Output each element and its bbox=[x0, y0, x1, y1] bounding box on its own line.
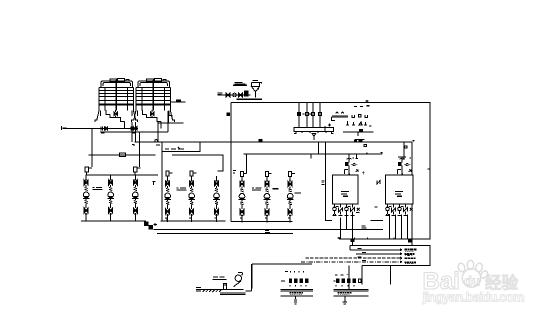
float valve tank bbox=[252, 81, 262, 98]
bottom-left inlet arrow bbox=[196, 288, 201, 292]
line 3 markers bbox=[351, 240, 412, 242]
base line hatches bbox=[203, 290, 222, 293]
instrument symbols row 1 bbox=[352, 115, 368, 118]
main top header pipe bbox=[231, 103, 430, 240]
drop valve squares bbox=[297, 113, 321, 116]
group A top header bbox=[89, 155, 156, 167]
pressure unit riser bbox=[348, 265, 350, 289]
softener bottle 1 bbox=[289, 279, 291, 283]
group A right elbow flange bbox=[133, 167, 140, 175]
line 1 label right bbox=[362, 226, 367, 228]
tower CT1 outlet valve bbox=[114, 112, 117, 117]
legend small labels on lines bbox=[358, 249, 367, 261]
group C supply header left elbow bbox=[247, 154, 311, 173]
cooling tower CT2 legs bbox=[132, 111, 175, 122]
group C left edge label bbox=[233, 171, 236, 173]
svg-text:du: du bbox=[464, 274, 480, 289]
group C branch flag fitting 3 bbox=[289, 172, 295, 177]
group C branch flag fitting 1 bbox=[240, 172, 246, 177]
tower water line 2 bbox=[100, 131, 168, 133]
chiller CH1 bottom extra marks bbox=[336, 207, 360, 213]
legend line L2 bbox=[356, 253, 402, 255]
group B label row dashes bbox=[165, 147, 184, 149]
chiller CH1 drop c bbox=[351, 215, 353, 246]
legend line L1 bbox=[350, 249, 402, 251]
group B frame top bbox=[162, 142, 200, 152]
label E right of group C bbox=[322, 181, 325, 184]
bottom-left unit pump bbox=[234, 273, 243, 288]
bottom-left footer bar bbox=[220, 293, 246, 294]
group C label 3# bbox=[252, 188, 262, 190]
chiller CH2 top drop from line A bbox=[404, 142, 407, 160]
baidu paw watermark bbox=[457, 260, 489, 287]
makeup riser horizontal bbox=[252, 264, 312, 289]
softener lower bar bbox=[280, 295, 313, 297]
group A header meter box bbox=[120, 153, 126, 157]
shelf filled box bbox=[360, 129, 363, 132]
softener ticks row bbox=[285, 271, 304, 273]
makeup valve 1 bbox=[226, 93, 230, 97]
label N between chillers bbox=[377, 181, 380, 185]
pump P2 column bbox=[107, 175, 114, 221]
softener bottle 4 bbox=[306, 279, 308, 283]
pressure unit label bbox=[338, 293, 352, 295]
chiller CH2 label bbox=[395, 192, 403, 197]
pressure unit ground symbol bbox=[343, 296, 348, 304]
softener base bar bbox=[280, 290, 313, 291]
chiller CH2 bottom extra marks bbox=[375, 207, 413, 211]
makeup strainer blob bbox=[245, 91, 249, 96]
line1 union fittings left bbox=[101, 126, 105, 133]
pressure unit squares bbox=[334, 274, 362, 286]
distributor drain funnel bbox=[312, 133, 316, 140]
group B frame left edge bbox=[161, 142, 163, 221]
bottom main line 2 bbox=[157, 233, 293, 235]
tower CT2 side pipe bbox=[158, 111, 184, 123]
line A start riser bbox=[132, 142, 135, 146]
distributor drop 4 bbox=[319, 103, 321, 128]
chiller collector line 3 bbox=[338, 237, 431, 239]
softener bottle 3 bbox=[300, 279, 302, 283]
cooling tower CT2 body bbox=[136, 80, 171, 111]
legend Chinese labels bbox=[405, 250, 417, 264]
cooling tower CT1 fan cap bbox=[101, 79, 133, 88]
line 2 label bbox=[265, 231, 270, 233]
standby pump label bbox=[272, 189, 301, 193]
chiller CH2 drop d bbox=[406, 215, 408, 240]
line A flange markers bbox=[259, 140, 367, 147]
makeup valve 2 bbox=[239, 93, 243, 97]
water distributor manifold bbox=[294, 128, 334, 134]
bypass bracket left bbox=[325, 126, 332, 132]
group A suction header bbox=[85, 174, 158, 176]
pump P4 column bbox=[164, 176, 171, 222]
cooling tower CT2 fan cap bbox=[138, 79, 170, 88]
pump P8 column bbox=[264, 176, 271, 222]
chiller CH2 bottom cluster bbox=[371, 204, 408, 220]
tank base bar bbox=[237, 99, 263, 100]
pump P5 column bbox=[188, 176, 195, 222]
pump P7 column bbox=[239, 176, 246, 222]
softener label bbox=[290, 293, 304, 295]
CT2 right leg drop bbox=[167, 111, 169, 132]
chiller CH1 inlet drop bbox=[326, 142, 332, 221]
bottom-left unit label bbox=[213, 277, 227, 280]
cooling tower CT1 body bbox=[99, 80, 134, 111]
makeup water pipe bbox=[218, 94, 251, 96]
instrument dashes top bbox=[354, 105, 370, 108]
makeup label left bbox=[218, 93, 223, 95]
overflow valve mark bbox=[177, 100, 181, 102]
cooling tower CT1 legs bbox=[95, 111, 138, 122]
tower water line label a] bbox=[62, 126, 67, 130]
chilled supply header (line B) bbox=[244, 152, 383, 154]
gauge hatch line bbox=[332, 112, 349, 121]
line1 union fittings right bbox=[131, 126, 135, 133]
softener bottle 2 bbox=[295, 279, 297, 283]
bottom main line 1 bbox=[154, 228, 383, 230]
tower riser left (to pump header) bbox=[91, 129, 93, 155]
chiller CH2 drop a bbox=[389, 214, 391, 239]
pump P3 column bbox=[132, 175, 139, 221]
group B label 2# bbox=[177, 188, 187, 190]
chiller CH2 drop e bbox=[411, 204, 413, 245]
chiller CH1 label bbox=[341, 192, 349, 197]
distributor drop 2 bbox=[306, 103, 308, 128]
chiller CH2 top cluster bbox=[398, 157, 412, 175]
distributor right bracket fitting bbox=[328, 124, 331, 127]
line A right drop bbox=[412, 141, 414, 175]
legend line L3 dashed bbox=[305, 257, 402, 259]
tower riser right (to pump header) bbox=[139, 132, 141, 155]
tower CT2 outlet valve bbox=[150, 112, 153, 117]
riser elbow bbox=[246, 264, 252, 291]
group C foot fittings bbox=[240, 218, 290, 221]
chiller CH2 bbox=[386, 175, 414, 204]
tower water supply line 1 bbox=[63, 128, 139, 130]
tower CT1 outlet trap pipe bbox=[106, 110, 125, 128]
group A discharge header bbox=[81, 220, 146, 222]
chiller CH1 top cluster bbox=[345, 154, 365, 175]
CT2 trap drop to line A bbox=[156, 122, 160, 146]
distributor drop 3 bbox=[312, 103, 314, 128]
top line tick bbox=[366, 100, 369, 103]
chiller CH2 drop b bbox=[395, 215, 397, 240]
chiller CH1 bottom cluster bbox=[333, 204, 355, 216]
flange marker on group C left edge bbox=[227, 113, 229, 115]
legend box bottom drops bbox=[362, 265, 391, 284]
distributor drop 1 bbox=[298, 103, 300, 128]
chiller CH1 bbox=[333, 175, 358, 204]
bottom-left unit tank bbox=[223, 284, 226, 290]
pressure unit lower bar bbox=[334, 295, 369, 297]
makeup water meter bbox=[233, 93, 237, 97]
softener inlet dash bbox=[281, 281, 306, 287]
group B discharge header bbox=[160, 220, 225, 222]
instrument symbols row 2 bbox=[346, 121, 372, 126]
union circle on line A bbox=[155, 140, 158, 143]
bottom-left unit base line bbox=[200, 288, 244, 290]
makeup water label underlined bbox=[233, 83, 247, 86]
condenser return header (line A) bbox=[135, 141, 412, 143]
legend line L4 dashdot bbox=[301, 261, 402, 263]
chiller CH2 drop c bbox=[401, 215, 403, 240]
pump P9 column bbox=[287, 176, 294, 222]
tower CT1 drain valve on line bbox=[104, 127, 107, 130]
group B supply header bbox=[172, 155, 223, 171]
chiller CH1 drop a bbox=[340, 218, 342, 240]
between-tower drops to line A bbox=[132, 122, 135, 142]
overflow stub right of CT2 bbox=[170, 101, 185, 103]
svg-text:jingyan.baidu.com: jingyan.baidu.com bbox=[422, 290, 525, 305]
group A label 1# bbox=[93, 188, 103, 190]
line B tick bbox=[319, 142, 368, 155]
group A left elbow flange bbox=[85, 167, 92, 175]
group B branch flag fitting 1 bbox=[166, 171, 172, 176]
group B branch flag fitting 2 bbox=[190, 171, 196, 176]
chiller CH1 drop b bbox=[346, 214, 348, 229]
text dashes under shelf bbox=[355, 139, 365, 141]
pump P6 column bbox=[213, 176, 220, 222]
group B foot fittings bbox=[165, 218, 217, 221]
label B right of group A bbox=[153, 182, 156, 186]
group C frame left edge bbox=[230, 103, 232, 222]
pressure unit base bar bbox=[334, 290, 369, 291]
pump P1 column bbox=[83, 175, 90, 221]
group C branch flag fitting 2 bbox=[265, 172, 271, 177]
tower CT2 outlet trap pipe bbox=[143, 110, 162, 128]
softener drain symbol bbox=[294, 296, 297, 304]
group C discharge header bbox=[231, 220, 293, 222]
tower CT2 drain valve on line bbox=[133, 127, 136, 130]
right riser tick bbox=[427, 168, 430, 170]
legend box bbox=[350, 246, 430, 266]
instrument shelf line bbox=[343, 132, 374, 136]
group A header end fitting bbox=[145, 222, 158, 229]
